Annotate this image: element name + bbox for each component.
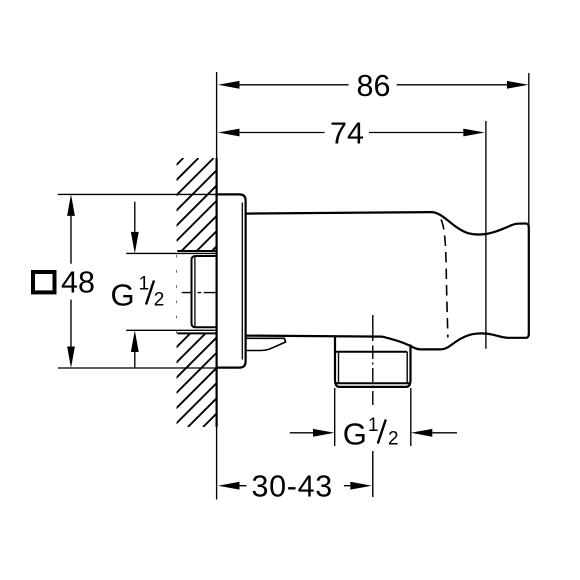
inlet thread G1/2 body (male thread inside wall) xyxy=(192,256,217,327)
body tube bottom edge xyxy=(246,336,382,337)
outlet nipple thread root right xyxy=(406,352,408,384)
dimension 48 line (vertical, broken at label) xyxy=(70,216,72,347)
dimension 30-43 line xyxy=(240,485,351,487)
extension line cone right edge above (86 dim) xyxy=(528,73,530,226)
dimension G1/2 bottom arrow pointing left xyxy=(411,429,433,437)
holder cone bottom profile xyxy=(382,333,529,349)
extension line nipple left (G1/2 bottom dim) xyxy=(334,388,336,446)
hidden edge cone/body intersection (dashed) xyxy=(441,220,448,338)
escutcheon plate chamfer line xyxy=(241,203,243,360)
svg-text:1: 1 xyxy=(139,274,150,295)
extension line nipple right (G1/2 bottom dim) xyxy=(410,388,412,446)
outlet nipple end face line xyxy=(335,382,411,384)
dimension 48 arrow down xyxy=(67,347,75,369)
wall hatching xyxy=(0,158,472,427)
svg-text:G: G xyxy=(111,278,135,313)
wall hole bottom edge xyxy=(177,332,216,334)
extension line plate bottom (48 dim) xyxy=(58,367,217,369)
svg-text:G: G xyxy=(343,417,367,452)
inlet thread G1/2 crest line top (also extension line of G1/2 dimension) xyxy=(126,252,216,254)
wall surface line xyxy=(216,158,218,427)
body tube top edge xyxy=(246,212,432,214)
svg-text:74: 74 xyxy=(330,117,364,151)
outlet nipple shoulder line xyxy=(335,351,407,353)
svg-text:2: 2 xyxy=(154,290,165,311)
dimension 86 line xyxy=(240,84,508,86)
dimension 74 line xyxy=(240,132,465,134)
dimension G1/2 left arrow up xyxy=(131,330,139,352)
extension line wall surface above (for 86/74 dims) xyxy=(216,72,218,158)
svg-text:2: 2 xyxy=(388,429,399,450)
extension line wall surface below (for 30-43 dim) xyxy=(216,427,218,500)
check valve boss under body (wedge) xyxy=(246,338,285,350)
dimension 86 arrow right xyxy=(507,81,529,89)
escutcheon plate bottom edge xyxy=(217,362,246,368)
outlet nipple outer silhouette xyxy=(335,337,411,387)
dimension 74 arrow left xyxy=(218,129,240,137)
dimension 74 arrow right xyxy=(463,129,485,137)
svg-text:1: 1 xyxy=(368,415,379,436)
label G1/2 bottom xyxy=(343,415,399,451)
dimension 30-43 arrow left xyxy=(218,482,240,490)
escutcheon plate front face xyxy=(245,201,247,362)
inlet thread G1/2 crest line bottom (also extension line of G1/2 dimension) xyxy=(126,329,216,331)
dimension 48 arrow up xyxy=(67,194,75,216)
inlet centerline (dash-dot, horizontal) xyxy=(182,292,217,294)
outlet nipple centerline (dash-dot, vertical) xyxy=(372,315,374,497)
svg-text:48: 48 xyxy=(61,266,95,300)
holder cone right edge xyxy=(528,226,530,335)
label G1/2 left xyxy=(111,274,165,313)
svg-text:30-43: 30-43 xyxy=(251,470,333,504)
escutcheon plate top edge xyxy=(217,194,246,200)
dimension G1/2 bottom arrow pointing right xyxy=(290,432,313,434)
inlet thread root line (inner left edge) xyxy=(194,256,196,327)
dimension 30-43 arrow right xyxy=(350,482,372,490)
wall hole top edge xyxy=(177,250,216,252)
square symbol (square section) xyxy=(33,272,55,292)
dimension 86 arrow left xyxy=(218,81,240,89)
extension line holder axis (74 dim) xyxy=(485,121,487,349)
outlet nipple thread root left xyxy=(338,352,340,384)
extension line plate top (48 dim) xyxy=(58,193,217,195)
holder cone top profile (concave dip and rim) xyxy=(432,212,529,234)
svg-text:86: 86 xyxy=(357,69,391,103)
dimension G1/2 left arrow down xyxy=(131,232,139,254)
